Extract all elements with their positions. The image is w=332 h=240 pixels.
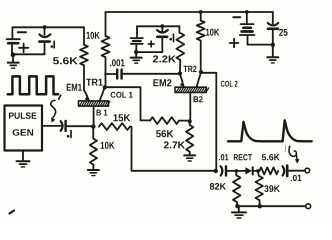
wire B2 bottom xyxy=(136,51,162,53)
wire top supply rail xyxy=(106,11,273,13)
junction C1 top xyxy=(43,25,47,29)
wire 15K to output chain xyxy=(130,127,216,171)
tick mark after square wave xyxy=(59,95,61,99)
label TR1 xyxy=(86,79,103,86)
junction B2/56K node xyxy=(188,119,192,123)
label B1 xyxy=(97,110,108,116)
label plus (B1) xyxy=(19,44,28,53)
label .1 (C2 value) xyxy=(67,135,70,138)
junction B3/C5 bottom xyxy=(271,43,275,47)
wire 56K to B2 node xyxy=(179,120,190,122)
capacitor C4 .1 (middle bypass) xyxy=(157,26,168,52)
junction B1 node xyxy=(91,124,95,128)
label .01 (C6) xyxy=(219,154,229,160)
TR2 collector lead xyxy=(196,72,201,88)
label COL 2 xyxy=(221,81,238,87)
capacitor C2 .1 (coupling) xyxy=(61,121,66,131)
label 10K (R4) xyxy=(101,142,115,149)
resistor R9 5.6K (output series) xyxy=(260,167,279,174)
output terminal (bottom) xyxy=(306,204,311,209)
output pulse waveform xyxy=(228,120,312,141)
label 2.2K (R5) xyxy=(153,55,176,62)
label 39K (R11) xyxy=(264,185,280,192)
TR2 base lead xyxy=(189,92,191,121)
squiggle arrow (input waveform pointer) xyxy=(51,100,56,122)
label RECT (diode) xyxy=(234,154,252,160)
label 82K (R10) xyxy=(210,183,226,190)
wire C2 to B1 node xyxy=(67,125,94,127)
label COL 1 xyxy=(111,92,133,98)
transistor TR1 (base bar) xyxy=(79,101,110,106)
label .1 (C4 value) xyxy=(169,38,172,41)
resistor R10 82K xyxy=(233,171,240,206)
wire B3 bottom xyxy=(248,44,273,46)
TR1 collector lead xyxy=(100,87,105,101)
ground (middle supply) xyxy=(131,52,142,63)
resistor R6 56K xyxy=(150,117,179,124)
label B2 xyxy=(194,96,203,102)
capacitor C3 .001 xyxy=(105,70,180,79)
resistor R1 5.6K xyxy=(80,27,88,90)
junction EM2 node xyxy=(178,71,182,75)
ground (R7) xyxy=(184,155,195,161)
capacitor C5 25 (right bypass) xyxy=(268,12,278,45)
junction TR1 collector node xyxy=(103,85,107,89)
junction TR2 collector node xyxy=(199,70,203,74)
ground (pulse gen) xyxy=(17,151,30,167)
resistor R11 39K xyxy=(256,171,263,206)
resistor R7 2.7K xyxy=(186,121,193,154)
resistor R5 2.2K xyxy=(176,26,184,73)
label 10K (R2) xyxy=(87,32,100,39)
junction B3 top on rail xyxy=(245,10,249,14)
label 5.6K (R1) xyxy=(53,57,78,64)
output terminal (top) xyxy=(305,168,310,173)
diode RECT xyxy=(245,167,252,174)
battery B2 (middle supply) xyxy=(131,26,143,52)
resistor R2 10K (upper left) xyxy=(102,12,110,87)
label plus (B2) xyxy=(148,41,154,47)
pulse gen box xyxy=(5,106,43,151)
wire B1 bottom xyxy=(12,53,45,55)
junction 82K top xyxy=(235,169,239,173)
capacitor C7 .01 (output) xyxy=(283,166,305,176)
label 5.6K (R9) xyxy=(262,154,280,160)
ground (left supply) xyxy=(8,55,19,68)
label .001 (C3) xyxy=(110,59,125,66)
junction 39K top xyxy=(256,169,260,173)
label PULSE (pulse gen) xyxy=(9,112,37,119)
wire B2 top xyxy=(137,25,179,27)
pulse waveform (square wave) xyxy=(8,76,59,94)
junction B1 bottom xyxy=(11,52,16,57)
label EM2 xyxy=(153,79,171,86)
label GEN (pulse gen) xyxy=(13,129,33,136)
wire COL1 to 56K xyxy=(105,87,150,120)
junction R8 top on rail xyxy=(199,10,203,14)
wire diode to 5.6K xyxy=(253,170,260,172)
label TR2 xyxy=(184,66,197,72)
stray mark bottom left xyxy=(10,211,15,214)
junction B2 bottom xyxy=(134,50,138,54)
junction 39K bottom xyxy=(258,204,262,208)
label minus (B3) xyxy=(233,16,240,18)
label plus (B3) xyxy=(230,39,239,48)
label 56K (R6) xyxy=(156,130,173,137)
junction 82K bottom xyxy=(235,204,239,208)
resistor R8 10K (collector load TR2) xyxy=(197,12,205,72)
TR1 base lead xyxy=(93,106,95,127)
capacitor C1 .1 (left bypass) xyxy=(39,27,50,54)
label EM1 xyxy=(67,84,82,91)
ground (output chain) xyxy=(232,206,246,218)
resistor R3 15K xyxy=(99,123,130,130)
battery B1 (left supply) xyxy=(7,27,20,54)
label 2.7K (R7) xyxy=(164,141,185,148)
label minus (B1) xyxy=(18,31,26,33)
label 25 (C5 value) xyxy=(279,29,288,36)
label .01 (C7) xyxy=(291,175,302,181)
squiggle arrow (output waveform pointer) xyxy=(289,146,300,163)
junction output chain left node xyxy=(214,169,218,173)
wire B1 top xyxy=(12,26,84,28)
ground (R4) xyxy=(88,170,99,176)
label 10K (R8) xyxy=(206,29,219,36)
ground (right supply) xyxy=(267,45,278,63)
label 15K (R3) xyxy=(113,114,130,121)
TR1 emitter lead with arrow xyxy=(84,90,90,101)
wire COL2 to output chain xyxy=(201,73,216,171)
capacitor C6 .01 xyxy=(221,166,246,175)
transistor TR2 (base bar) xyxy=(175,87,209,92)
junction C4 top xyxy=(160,24,164,28)
label .1 (C1 value) xyxy=(51,45,54,48)
wire output bottom xyxy=(237,205,305,207)
battery B3 (right supply) xyxy=(240,12,255,45)
TR2 emitter lead with arrow xyxy=(180,74,185,88)
faint tick below waveform xyxy=(284,146,287,152)
resistor R4 10K (base return) xyxy=(90,127,97,170)
wire pulse gen output xyxy=(42,125,61,127)
